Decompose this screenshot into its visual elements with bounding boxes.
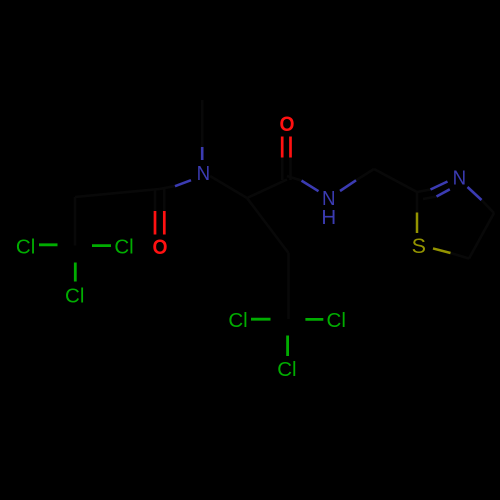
bond S-C2 olive half [416, 213, 419, 234]
svg-text:Cl: Cl [65, 285, 84, 308]
nitrogen bonds (blue halves) [175, 147, 482, 200]
wire thiazole C5-S carbon half [451, 253, 470, 259]
wire NH-CH2 carbon half [356, 169, 374, 180]
bond C-Cl2 left CCl3 [92, 244, 111, 247]
wire C=O carbon halves right [281, 158, 284, 181]
sulfur bonds (olive halves) [417, 213, 451, 254]
wire CH2-thiazole C2 [374, 169, 417, 192]
wire C=O carbon halves left [154, 189, 157, 211]
double bond C2=N3 thiazole blue halves [431, 182, 448, 190]
bond C-Cl5 bottom CCl3 [305, 318, 323, 321]
bond C-Cl3 left CCl3 vertical [74, 263, 77, 282]
wire thiazole C4-C5 [469, 213, 494, 259]
bond N2-CH2 blue half [340, 180, 356, 191]
svg-text:S: S [412, 234, 426, 258]
wire thiazole C2-S carbon half [416, 192, 419, 213]
svg-text:N: N [197, 162, 211, 185]
double bond C=O right amide [281, 137, 284, 158]
wire CH-C(=O) [247, 180, 287, 199]
svg-text:N: N [453, 167, 467, 190]
bond C-Cl6 bottom CCl3 vertical [286, 336, 289, 357]
wire thiazole C2=N carbon halves [417, 190, 431, 193]
svg-text:H: H [321, 206, 336, 229]
atom labels [16, 112, 466, 381]
svg-text:Cl: Cl [228, 309, 247, 332]
chlorine bonds (green halves) [39, 245, 323, 356]
bond Cl1-C left CCl3 [39, 243, 58, 246]
svg-text:Cl: Cl [114, 236, 133, 259]
carbonyl double bonds (red halves) [155, 137, 291, 235]
wire CH-CH2 [247, 198, 289, 253]
wire C(Cl3)-CH2 vertical [74, 197, 77, 246]
bond N1-C(=O) blue half [175, 180, 191, 186]
wire CH2-C(=O) [75, 189, 160, 197]
svg-text:Cl: Cl [327, 309, 346, 332]
wire thiazole N-C4 carbon half [482, 200, 495, 213]
wire C(=O)-N carbon half [160, 186, 176, 189]
svg-text:O: O [280, 112, 295, 136]
svg-text:O: O [153, 235, 168, 259]
svg-text:Cl: Cl [16, 236, 35, 259]
wire N-CH3 carbon half [201, 100, 204, 147]
bond Cl4-C bottom CCl3 [251, 318, 271, 321]
bond S-C5 olive half [433, 248, 451, 253]
wire CH2-CCl3 [287, 253, 290, 319]
bond C(=O)-N2 blue half [302, 181, 319, 192]
double bond C=O left amide [154, 211, 157, 235]
wire N-CH [210, 176, 247, 198]
svg-text:Cl: Cl [277, 358, 296, 381]
wire C(=O)-NH carbon half [287, 176, 302, 181]
bond N3-C4 thiazole blue half [468, 187, 482, 200]
carbon skeleton (near-invisible dark gray, as in source) [75, 100, 494, 319]
bond N1-CH3 blue half [201, 147, 204, 160]
